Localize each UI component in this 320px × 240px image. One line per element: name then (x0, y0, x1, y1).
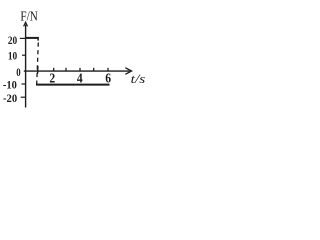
y-axis tick -20 (21, 96, 26, 98)
corner drop at t=1 (37, 37, 39, 40)
y-axis shaft (25, 25, 27, 108)
background (0, 0, 150, 113)
x-axis tick t=4 (79, 68, 81, 71)
y-axis tick -10 (22, 83, 26, 85)
x-axis tick t=2 (53, 68, 55, 71)
dashed drop line t=1 (37, 43, 39, 85)
F=-10N segment (1..6s) (36, 84, 110, 86)
svg-text:-10: -10 (3, 77, 17, 91)
svg-text:6: 6 (105, 71, 111, 86)
svg-text:10: 10 (8, 49, 17, 63)
svg-text:0: 0 (16, 65, 20, 79)
F=20N segment (0..1s) (26, 37, 39, 39)
x-axis shaft (24, 70, 130, 72)
x-axis tick t=3 (65, 68, 67, 71)
svg-text:-20: -20 (3, 91, 17, 105)
svg-text:20: 20 (8, 33, 17, 47)
tick & dash crossing at t=1 (37, 66, 39, 74)
svg-text:4: 4 (77, 71, 83, 86)
y-axis arrowhead (24, 22, 28, 26)
svg-text:t/s: t/s (131, 72, 146, 86)
x-axis tick t=6 (107, 68, 109, 71)
x-axis arrowhead (125, 68, 131, 75)
svg-text:2: 2 (49, 71, 55, 86)
force-time graph F/N vs t/s (0, 0, 150, 113)
y-axis tick 10 (22, 54, 26, 56)
x-axis tick t=5 (93, 68, 95, 71)
y-axis tick 20 (20, 37, 26, 39)
svg-text:F/N: F/N (20, 9, 37, 24)
